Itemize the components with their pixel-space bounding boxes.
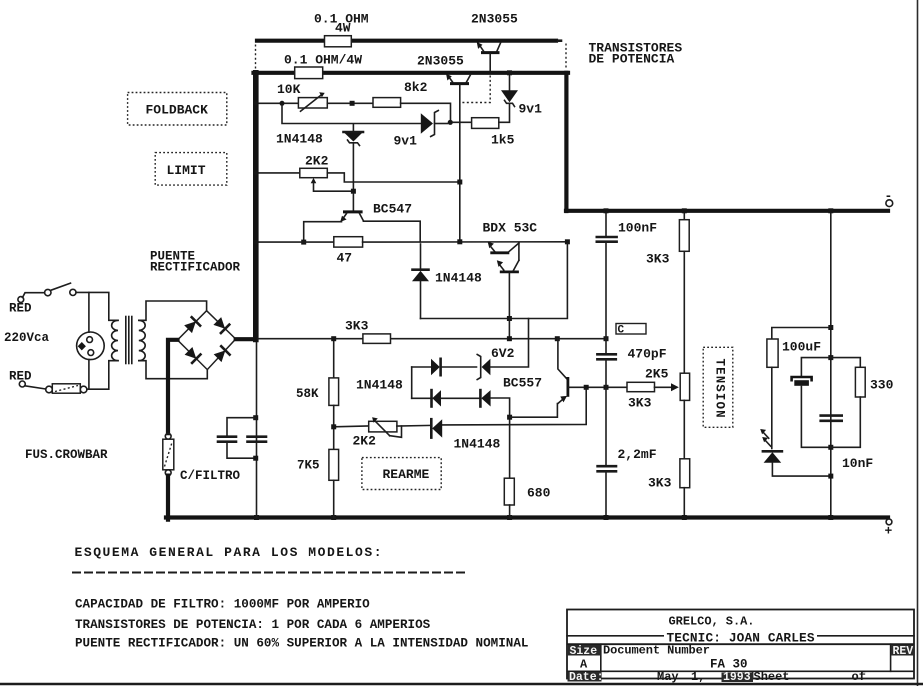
svg-text:Document Number: Document Number: [603, 644, 710, 658]
svg-text:1N4148: 1N4148: [454, 437, 501, 452]
wire Q3 emitter: [304, 222, 342, 242]
fuse F1 mains: [46, 386, 53, 393]
diode D3 1N4148: [430, 390, 433, 406]
svg-text:Sheet: Sheet: [754, 670, 790, 684]
transistor Q5 BC557: [558, 339, 568, 404]
svg-text:REARME: REARME: [383, 467, 430, 482]
terminal plus: [886, 519, 892, 525]
node G: [301, 240, 306, 245]
node I x567: [565, 239, 570, 244]
node N: [604, 336, 609, 341]
wire 47 to BDX: [363, 241, 568, 243]
node L: [507, 336, 512, 341]
svg-text:100nF: 100nF: [618, 221, 657, 236]
node A 10K left: [280, 101, 285, 106]
dotted box TENSION: [703, 347, 733, 427]
resistor R 0.1ohm/4W top: [325, 36, 352, 47]
rail external top: [257, 39, 556, 43]
resistor 58K: [333, 341, 335, 378]
svg-text:2N3055: 2N3055: [471, 12, 518, 27]
wire BDX collector return: [529, 244, 568, 339]
node P: [584, 385, 589, 390]
wire emitter link: [510, 404, 558, 418]
zener D 1N4148 mid: [344, 131, 364, 134]
svg-text:of: of: [852, 670, 866, 684]
node J: [507, 316, 512, 321]
wire terminal to switch: [23, 293, 45, 298]
dashed rule under note: [72, 572, 465, 574]
node Q: [604, 385, 609, 390]
dotted box REARME: [362, 458, 441, 490]
wire terminal to fuse: [25, 386, 46, 389]
resistor 3K3 upper right: [679, 220, 689, 252]
svg-text:6V2: 6V2: [491, 346, 515, 361]
diode D5 1N4148: [430, 419, 433, 437]
svg-text:10K: 10K: [277, 82, 301, 97]
resistor 1k5: [453, 121, 472, 123]
resistor 3K3 series: [363, 334, 391, 344]
svg-text:1N4148: 1N4148: [435, 271, 482, 286]
svg-text:FOLDBACK: FOLDBACK: [146, 103, 209, 118]
svg-text:1993: 1993: [723, 671, 751, 684]
svg-text:1,: 1,: [691, 670, 705, 684]
resistor 47: [334, 237, 363, 247]
svg-text:4W: 4W: [335, 21, 351, 36]
node filter bottom: [253, 456, 258, 461]
plug P1 220V: [77, 332, 105, 360]
transformer core: [125, 317, 127, 364]
box top line: [254, 71, 569, 75]
svg-text:FUS.CROWBAR: FUS.CROWBAR: [25, 448, 108, 462]
capacitor C filtro main: [248, 435, 267, 438]
terminal RED top: [18, 297, 24, 303]
svg-text:2K2: 2K2: [305, 154, 329, 169]
svg-text:3K3: 3K3: [646, 252, 670, 267]
zener D2 6V2: [477, 355, 481, 380]
bridge rectifier B1 diamond: [178, 311, 236, 370]
svg-text:220Vca: 220Vca: [4, 331, 50, 345]
svg-text:3K3: 3K3: [628, 396, 652, 411]
bridge diode D-BR: [214, 350, 226, 362]
wire 10K to 8k2: [327, 102, 373, 104]
node B: [350, 101, 355, 106]
svg-text:May: May: [657, 670, 679, 684]
resistor 680: [504, 478, 514, 505]
node M: [555, 336, 560, 341]
wire row2: [412, 397, 432, 399]
svg-text:1k5: 1k5: [491, 133, 515, 148]
node on rail x606: [604, 208, 609, 213]
svg-text:Size: Size: [570, 645, 598, 658]
potentiometer 2K5 body: [680, 373, 689, 400]
wire 8k2 to drop: [401, 103, 451, 122]
svg-text:2K5: 2K5: [645, 367, 669, 382]
wire 1k5 to zener 9v1 vertical: [499, 104, 510, 123]
wire plug top: [88, 292, 90, 332]
bridge diode D-BL: [185, 347, 197, 359]
wire 2K2 to node E: [327, 173, 460, 182]
capacitor C filtro branch: [227, 418, 256, 436]
wiper arrow to pot: [655, 386, 672, 388]
svg-text:Date:: Date:: [569, 671, 604, 684]
svg-text:8k2: 8k2: [404, 80, 428, 95]
title cell REV: [891, 645, 914, 656]
resistor 100uF branch: [772, 328, 831, 340]
LED D6: [760, 429, 782, 463]
wire BC557 base: [569, 386, 627, 388]
wire row 2K2: [258, 172, 300, 174]
svg-text:2N3055: 2N3055: [417, 54, 464, 69]
capacitor electrolytic branch: [801, 358, 830, 377]
diode D1 1N4148: [431, 359, 440, 375]
bridge diode D-TL: [184, 321, 196, 333]
node U inner branch: [828, 355, 833, 360]
node filter top: [253, 415, 258, 420]
svg-text:9v1: 9v1: [394, 134, 418, 149]
fuse F2 C/FILTRO: [165, 433, 171, 439]
switch S1: [45, 289, 51, 295]
main node line y338: [258, 338, 606, 340]
node rail bottom x606: [604, 515, 609, 520]
svg-text:A: A: [580, 658, 588, 672]
svg-text:FA 30: FA 30: [710, 658, 748, 672]
node K 58K top: [331, 336, 336, 341]
node S 100uF branch: [828, 325, 833, 330]
resistor 3K3 lower right: [680, 459, 690, 488]
wire row1: [412, 366, 431, 368]
box C marker: [616, 324, 646, 335]
page bottom border: [0, 683, 923, 685]
dotted link Q1 base: [462, 76, 490, 103]
wire 10K loop down: [282, 106, 421, 124]
transformer T1 secondary: [139, 320, 145, 360]
svg-text:BC547: BC547: [373, 202, 412, 217]
svg-text:BDX 53C: BDX 53C: [483, 221, 538, 236]
resistor 7K5: [333, 427, 335, 450]
svg-text:100uF: 100uF: [782, 340, 821, 355]
wire Q3 collector: [363, 221, 420, 242]
wire x684 vertical top: [683, 211, 685, 220]
wire secondary bottom to bridge: [139, 361, 208, 379]
svg-text:TRANSISTORES DE POTENCIA: 1 PO: TRANSISTORES DE POTENCIA: 1 POR CADA 6 A…: [75, 618, 431, 632]
potentiometer 10K: [298, 98, 327, 108]
title block frame: [567, 610, 914, 679]
wire row 10K: [258, 102, 298, 104]
wire filter cap riser: [256, 339, 258, 517]
svg-text:1N4148: 1N4148: [276, 132, 323, 147]
transformer T1 primary: [112, 320, 118, 360]
svg-text:2,2mF: 2,2mF: [618, 447, 657, 462]
box right drop to output rail: [564, 73, 568, 211]
bottom rail plus: [166, 515, 888, 519]
title cell Date: [568, 672, 602, 682]
svg-text:9v1: 9v1: [519, 102, 543, 117]
bridge diode D-TR: [213, 317, 225, 329]
wire plug bottom: [88, 360, 90, 390]
node R: [331, 424, 336, 429]
potentiometer 2K2 lower: [369, 421, 397, 432]
svg-text:1N4148: 1N4148: [356, 378, 403, 393]
svg-text:470pF: 470pF: [628, 347, 667, 362]
box left riser: [253, 73, 259, 340]
capacitor 470pF: [605, 339, 607, 354]
resistor 8k2: [373, 98, 401, 108]
svg-text:GRELCO, S.A.: GRELCO, S.A.: [669, 615, 755, 629]
svg-text:330: 330: [870, 378, 894, 393]
svg-text:REV: REV: [893, 645, 914, 658]
svg-text:RED: RED: [9, 302, 32, 316]
svg-text:680: 680: [527, 486, 551, 501]
diode network bracket: [411, 367, 413, 398]
svg-text:58K: 58K: [296, 387, 319, 401]
wire 2K2 to D5: [397, 424, 432, 427]
svg-text:LIMIT: LIMIT: [167, 163, 206, 178]
dotted box LIMIT: [155, 153, 227, 186]
wire x831 vertical: [830, 211, 832, 518]
svg-text:3K3: 3K3: [648, 476, 672, 491]
svg-text:ESQUEMA GENERAL PARA LOS MODEL: ESQUEMA GENERAL PARA LOS MODELOS:: [75, 545, 384, 560]
svg-text:10nF: 10nF: [842, 456, 873, 471]
wire row2 to emitter node: [491, 398, 510, 478]
node O emitter: [507, 415, 512, 420]
output rail minus: [566, 209, 888, 213]
wire base return: [442, 390, 586, 425]
node V: [828, 445, 833, 450]
page right border: [917, 0, 919, 686]
capacitor 10nF mid: [821, 414, 842, 417]
svg-text:DE POTENCIA: DE POTENCIA: [589, 52, 675, 67]
svg-text:C: C: [618, 325, 625, 337]
node T: [828, 474, 833, 479]
dotted box FOLDBACK: [128, 93, 227, 126]
capacitor 100nF: [597, 236, 617, 239]
node E: [457, 180, 462, 185]
terminal minus: [886, 200, 893, 207]
svg-text:TENSION: TENSION: [713, 359, 727, 419]
wire x606 vertical: [605, 211, 607, 236]
potentiometer 2K2: [300, 168, 328, 177]
diode D4 1N4148: [479, 390, 482, 406]
svg-text:3K3: 3K3: [345, 319, 369, 334]
dotted link right: [565, 44, 567, 70]
resistor 3K3 base feed: [627, 382, 655, 391]
node F wiper join: [351, 189, 356, 194]
zener D 9v1 vertical: [501, 90, 518, 102]
transistor Q3 BC547: [340, 194, 363, 222]
resistor 330: [831, 358, 861, 368]
svg-text:0.1 OHM/4W: 0.1 OHM/4W: [284, 53, 362, 68]
svg-text:+: +: [885, 524, 893, 539]
svg-text:C/FILTRO: C/FILTRO: [180, 469, 241, 483]
transistor Q1 2N3055: [477, 42, 501, 71]
node H x460: [457, 239, 462, 244]
transistor Q4 BDX53C darlington: [488, 242, 519, 319]
resistor R 0.1ohm/4W lower: [295, 67, 323, 79]
svg-text:RECTIFICADOR: RECTIFICADOR: [150, 261, 241, 275]
wire y318 link: [421, 318, 529, 320]
wire row3: [334, 425, 369, 428]
transistor Q2 2N3055: [446, 74, 471, 242]
svg-text:PUENTE RECTIFICADOR: UN 60% SU: PUENTE RECTIFICADOR: UN 60% SUPERIOR A L…: [75, 637, 528, 651]
wire fuse to transformer: [87, 361, 118, 390]
title cell Size: [568, 645, 601, 656]
svg-text:47: 47: [337, 251, 353, 266]
node riser-2K2: [254, 171, 259, 176]
thick wire bridge left corner to crowbar fuse: [168, 340, 178, 433]
dotted link left: [255, 45, 257, 71]
svg-text:-: -: [885, 189, 893, 204]
diode 1N4148 under BDX: [420, 244, 422, 269]
svg-text:2K2: 2K2: [353, 434, 377, 449]
node C 1k5 left: [448, 120, 453, 125]
svg-text:BC557: BC557: [503, 376, 542, 391]
wire secondary top to bridge: [139, 301, 207, 320]
svg-text:7K5: 7K5: [297, 459, 320, 473]
thick wire fuse to bottom rail: [166, 476, 170, 520]
svg-text:CAPACIDAD DE FILTRO: 1000MF PO: CAPACIDAD DE FILTRO: 1000MF POR AMPERIO: [75, 598, 370, 612]
node D on box top: [507, 70, 512, 75]
node riser-10K: [254, 101, 259, 106]
capacitor 2,2mF: [598, 465, 616, 468]
zener D 9v1 horizontal: [421, 113, 433, 134]
wire row 47: [258, 241, 334, 243]
wire switch to transformer: [76, 292, 118, 320]
thick wire bridge right corner to riser: [236, 337, 254, 341]
